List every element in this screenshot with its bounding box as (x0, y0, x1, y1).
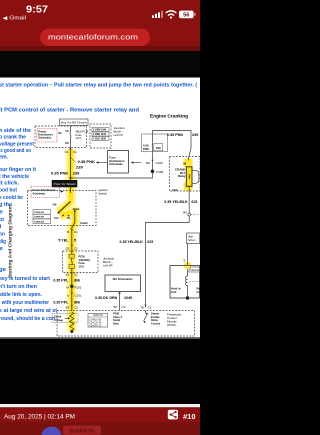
svg-text:C2: C2 (64, 150, 68, 154)
svg-text:C3=GRY 32: C3=GRY 32 (89, 325, 102, 327)
underhood fuse block (dashed) (35, 126, 87, 148)
svg-text:Hot In Start: Hot In Start (54, 183, 77, 186)
svg-text:0.35 PPL: 0.35 PPL (53, 301, 69, 305)
splice node on PNK wire (70, 177, 72, 179)
wire DK GRN 1049 to SIU box (118, 291, 121, 311)
underhood fuse block relay section (dashed) (170, 157, 201, 192)
svg-text:B9: B9 (146, 161, 150, 165)
svg-text:ge: ge (0, 267, 6, 273)
svg-text:on: on (0, 231, 5, 237)
svg-text:1049: 1049 (124, 296, 132, 300)
avatar (42, 427, 62, 435)
svg-text:Engine Cranking: Engine Cranking (150, 114, 188, 120)
PCM class 2 serial data label (113, 311, 123, 325)
junction block connector box (dashed) (90, 124, 111, 148)
label box Hot In Start (52, 180, 77, 187)
svg-text:Class 2: Class 2 (113, 315, 123, 319)
svg-text:sible link is open.: sible link is open. (0, 292, 43, 298)
label box: Hot At All Times (60, 119, 89, 126)
svg-text:our finger on it: our finger on it (0, 167, 36, 173)
date bar (0, 407, 200, 422)
svg-text:◀ Gmail: ◀ Gmail (3, 16, 27, 22)
highlighted circuit trace (yellow overlay) (59, 149, 75, 332)
ignition switch label (98, 188, 108, 196)
svg-text:1 RED 1342: 1 RED 1342 (93, 133, 107, 136)
back to Gmail (3, 16, 27, 22)
svg-text:Off: Off (53, 203, 57, 207)
connector pin E9 C2 (66, 305, 79, 310)
connector pin 78 C2 (140, 305, 152, 310)
junction block 2 (dashed) with PCM CRANK fuse (63, 251, 99, 273)
svg-text:625: 625 (147, 240, 153, 244)
wifi icon (166, 11, 176, 19)
svg-text:Schem: Schem (188, 239, 195, 242)
svg-text:ood but: ood but (0, 188, 17, 194)
svg-text:59: 59 (113, 305, 117, 309)
svg-text:C1: C1 (74, 230, 78, 234)
connector C2/C1 below fuse block (64, 148, 77, 154)
battery with percent (179, 11, 196, 19)
svg-text:Power Distribution: Power Distribution (33, 188, 56, 192)
svg-text:(PCM): (PCM) (167, 323, 176, 327)
starter solenoid box (170, 266, 200, 299)
svg-text:voltage present: voltage present (0, 141, 34, 147)
svg-text:Distribution: Distribution (109, 159, 124, 163)
reference box: Fuse Distribution Schematic (108, 151, 129, 174)
svg-text:625: 625 (191, 200, 197, 204)
svg-text:em.: em. (0, 155, 9, 161)
svg-text:C100: C100 (156, 161, 164, 165)
svg-text:it click.: it click. (0, 181, 20, 187)
svg-text:C2: C2 (75, 306, 79, 310)
fuse F1 wire (70, 126, 71, 148)
svg-text:239: 239 (156, 146, 161, 150)
ignition switch contacts (58, 202, 76, 228)
svg-text:ot: ot (0, 217, 4, 223)
svg-text:806: 806 (74, 278, 80, 282)
svg-text:Start: Start (73, 207, 80, 211)
PCM input coil on PPL wire (70, 312, 74, 333)
junction block 2 label (103, 256, 115, 267)
svg-text:Schematic: Schematic (109, 162, 123, 166)
svg-text:Fuse: Fuse (109, 155, 116, 159)
svg-text:C1B: C1B (172, 188, 177, 192)
connector pin D3 C1 (65, 245, 78, 251)
arrow wire right of box (131, 161, 141, 163)
fuse F1 labels (65, 129, 89, 145)
svg-text:Left I/P: Left I/P (114, 133, 124, 137)
svg-text:P100: P100 (156, 170, 163, 174)
wire label 0.35 PNK 239 (at wire) (51, 171, 80, 176)
svg-text:Switch: Switch (98, 191, 107, 195)
wire label 0.35 YEL/BLK 625 (upper) (164, 200, 197, 204)
svg-text:C1=BLU 80: C1=BLU 80 (89, 319, 102, 321)
vertical diagram caption (8, 205, 13, 278)
svg-text:0.35 DK GRN: 0.35 DK GRN (95, 296, 118, 300)
svg-text:10 A: 10 A (76, 136, 82, 140)
PCM box (dashed) (57, 311, 195, 337)
svg-text:Schematic: Schematic (38, 136, 52, 140)
svg-text:78: 78 (140, 306, 144, 310)
svg-text:U: U (67, 294, 69, 298)
svg-text:C1: C1 (122, 305, 126, 309)
svg-text:n't turn on then: n't turn on then (0, 284, 37, 290)
svg-text:B4: B4 (183, 211, 187, 215)
connector B4 (183, 211, 199, 216)
svg-text:Crank: Crank (80, 221, 88, 225)
callout: Power Distribution Schematic (red dashed) (37, 129, 63, 143)
svg-text:B: B (67, 230, 69, 234)
svg-text:st starter operation – Pull st: st starter operation – Pull starter rela… (0, 83, 197, 89)
svg-text:Serial: Serial (113, 318, 120, 322)
svg-text:C0SW-A2: C0SW-A2 (34, 211, 45, 214)
starter enable relay control label (151, 311, 160, 325)
svg-text:D3: D3 (65, 246, 69, 250)
black strip below toolbar (0, 51, 200, 78)
svg-text:S: S (183, 259, 185, 263)
connector U C101 (67, 293, 82, 298)
leader to wire label (71, 158, 76, 163)
splice P100 (151, 170, 164, 175)
svg-text:Starter: Starter (151, 311, 159, 315)
svg-text:C0SW-M1: C0SW-M1 (34, 217, 45, 219)
clock (26, 4, 48, 15)
svg-text:Aug 20, 2025 | 02:14 PM: Aug 20, 2025 | 02:14 PM (4, 413, 75, 420)
svg-text:56: 56 (183, 13, 189, 19)
svg-text:0.35 YEL/BLK: 0.35 YEL/BLK (119, 240, 143, 244)
svg-text:2 ORN 1340: 2 ORN 1340 (93, 129, 107, 132)
wire label 0.35 DK GRN 1049 (95, 296, 132, 300)
connector C100 / pin B9 (146, 160, 163, 165)
svg-text:239: 239 (73, 171, 80, 176)
svg-text:1 BLK 1350: 1 BLK 1350 (93, 138, 107, 141)
wire label 0.35 PNK 239 (top right) (167, 133, 199, 137)
PCM name label (167, 312, 182, 327)
connector pin E2 C1 (66, 273, 79, 277)
PCM starter enable relay control driver (144, 311, 148, 323)
svg-text:P101: P101 (74, 286, 81, 290)
wire P100 up through C100 (152, 131, 154, 170)
wire box to solenoid S (187, 244, 189, 266)
callout: Crank Voltage (52, 314, 78, 323)
connector pin B C1 (67, 229, 78, 233)
svg-text:0.35 PPL: 0.35 PPL (53, 278, 69, 282)
node S highlight circle (184, 262, 192, 270)
svg-text:5: 5 (74, 239, 76, 243)
junction block label (114, 126, 126, 137)
cell signal icon (152, 11, 163, 18)
svg-text:Data: Data (113, 322, 119, 326)
title Engine Cranking (150, 114, 188, 120)
svg-text:o crank the: o crank the (0, 135, 26, 141)
svg-text:Co: Co (197, 290, 201, 294)
share button (168, 410, 178, 420)
svg-text:round, should be a con: round, should be a con (0, 316, 55, 322)
svg-text:C2=CLR 80: C2=CLR 80 (89, 322, 102, 324)
svg-text:0.35 YEL/BLK: 0.35 YEL/BLK (164, 200, 188, 204)
svg-text:E9: E9 (66, 306, 70, 310)
wire label 0.35 PPL 806 (53, 278, 80, 282)
url pill (40, 29, 150, 46)
wire: switch to PCM fuse (71, 227, 73, 251)
relay CRANK RLY (172, 162, 199, 192)
svg-text:dig: dig (0, 239, 6, 245)
svg-text:C0SW-B4: C0SW-B4 (34, 220, 45, 223)
svg-text:e could be: e could be (0, 195, 23, 201)
boxed wire label 0.35 PNK 239 (142, 134, 168, 152)
svg-text:Starting And Charging Diagram: Starting And Charging Diagram (8, 205, 13, 278)
ignition switch box (dashed) (28, 191, 97, 226)
svg-text:NB: NB (65, 129, 69, 133)
svg-text:PNK: PNK (143, 147, 150, 151)
PCM connector ID table (88, 314, 108, 328)
svg-text:Acc: Acc (54, 216, 59, 220)
wire label 0.35 PNK 239 (upper) (76, 159, 95, 169)
svg-text:PCM: PCM (113, 311, 119, 315)
svg-text:C2: C2 (148, 306, 152, 310)
wire PNK 239 to relay (top run) (153, 131, 192, 161)
svg-text:0.35 PNK: 0.35 PNK (167, 133, 184, 137)
wire: fuse to ignition switch (70, 148, 72, 194)
relay pin pads highlight (184, 159, 193, 191)
svg-text:davidb0765: davidb0765 (69, 429, 95, 435)
svg-text:On: On (67, 216, 71, 220)
username badge (63, 426, 101, 435)
svg-text:it PCM control of starter - Re: it PCM control of starter - Remove start… (0, 108, 139, 114)
svg-text:806: 806 (74, 301, 80, 305)
branch wire to splice P100 (71, 171, 153, 178)
svg-text:h side of the: h side of the (0, 128, 31, 134)
svg-text:MB: MB (65, 141, 69, 145)
svg-text:5 YEL: 5 YEL (58, 239, 69, 243)
svg-text:e: e (0, 246, 3, 252)
arrow wire left of box (96, 161, 108, 163)
svg-text:C1: C1 (73, 150, 77, 154)
svg-text:239: 239 (76, 164, 83, 169)
black area below page (0, 337, 200, 404)
svg-text:CONN ID: CONN ID (93, 315, 103, 317)
wire: fuse to PCM (PPL 806) (71, 273, 73, 311)
svg-text:t the vehicle: t the vehicle (0, 174, 29, 180)
svg-text:239: 239 (192, 133, 198, 137)
svg-text:C1: C1 (74, 246, 78, 250)
callout: Power Distribution Schematic (red dashed, lower) (31, 187, 64, 198)
svg-text:E2: E2 (66, 273, 70, 277)
wire relay to PCM (YEL/BLK 625) (146, 186, 190, 307)
ignition switch terminal table (33, 210, 51, 224)
svg-text:Relay: Relay (151, 318, 158, 322)
wire label 0.35 YEL/BLK 625 (lower) (119, 240, 153, 244)
svg-text:Crank: Crank (54, 314, 62, 318)
svg-text:86: 86 (183, 162, 186, 166)
svg-text:montecarloforum.com: montecarloforum.com (48, 33, 138, 42)
svg-text:C101: C101 (74, 294, 82, 298)
svg-text:9:57: 9:57 (26, 4, 48, 15)
wire label 0.35 PPL 806 (second) (53, 301, 80, 305)
svg-text:C1: C1 (74, 273, 78, 277)
svg-text:10 A: 10 A (79, 265, 85, 269)
svg-text:e at large red wire at st: e at large red wire at st (0, 308, 57, 314)
splice P101 (67, 285, 82, 290)
svg-text:Coil: Coil (171, 290, 177, 294)
svg-text:Schematic: Schematic (33, 191, 47, 195)
status bar background (0, 0, 200, 51)
svg-text:e: e (0, 209, 3, 215)
svg-text:Left I/P: Left I/P (103, 263, 113, 267)
svg-text:Control: Control (151, 322, 160, 326)
reference box: SIU Schematics (105, 275, 141, 292)
bottom post header strip (0, 422, 200, 435)
reference box top right (starter schematics) (187, 233, 200, 244)
svg-text:Hot At All Times: Hot At All Times (61, 121, 88, 125)
solenoid ground node (186, 296, 189, 299)
switch position labels (53, 203, 89, 226)
post number (183, 414, 196, 421)
svg-text:#10: #10 (183, 414, 196, 421)
solenoid hold-in coil (171, 269, 202, 298)
svg-text:Enable: Enable (151, 315, 160, 319)
node S label (183, 259, 185, 263)
wire label 5 YEL 5 (58, 239, 76, 243)
svg-text:, with your multimeter: , with your multimeter (0, 300, 49, 306)
white divider strip (0, 404, 200, 407)
svg-text:0.35 PNK: 0.35 PNK (51, 171, 68, 176)
white page (0, 78, 200, 339)
svg-text:SIU Schematics: SIU Schematics (113, 277, 134, 281)
connector pin 59 C1 (113, 305, 125, 309)
svg-text:Relay: Relay (178, 174, 186, 178)
svg-text:is good and so: is good and so (0, 148, 31, 154)
svg-text:Voltage: Voltage (54, 318, 64, 322)
svg-text:Solenoid: Solenoid (190, 270, 200, 272)
